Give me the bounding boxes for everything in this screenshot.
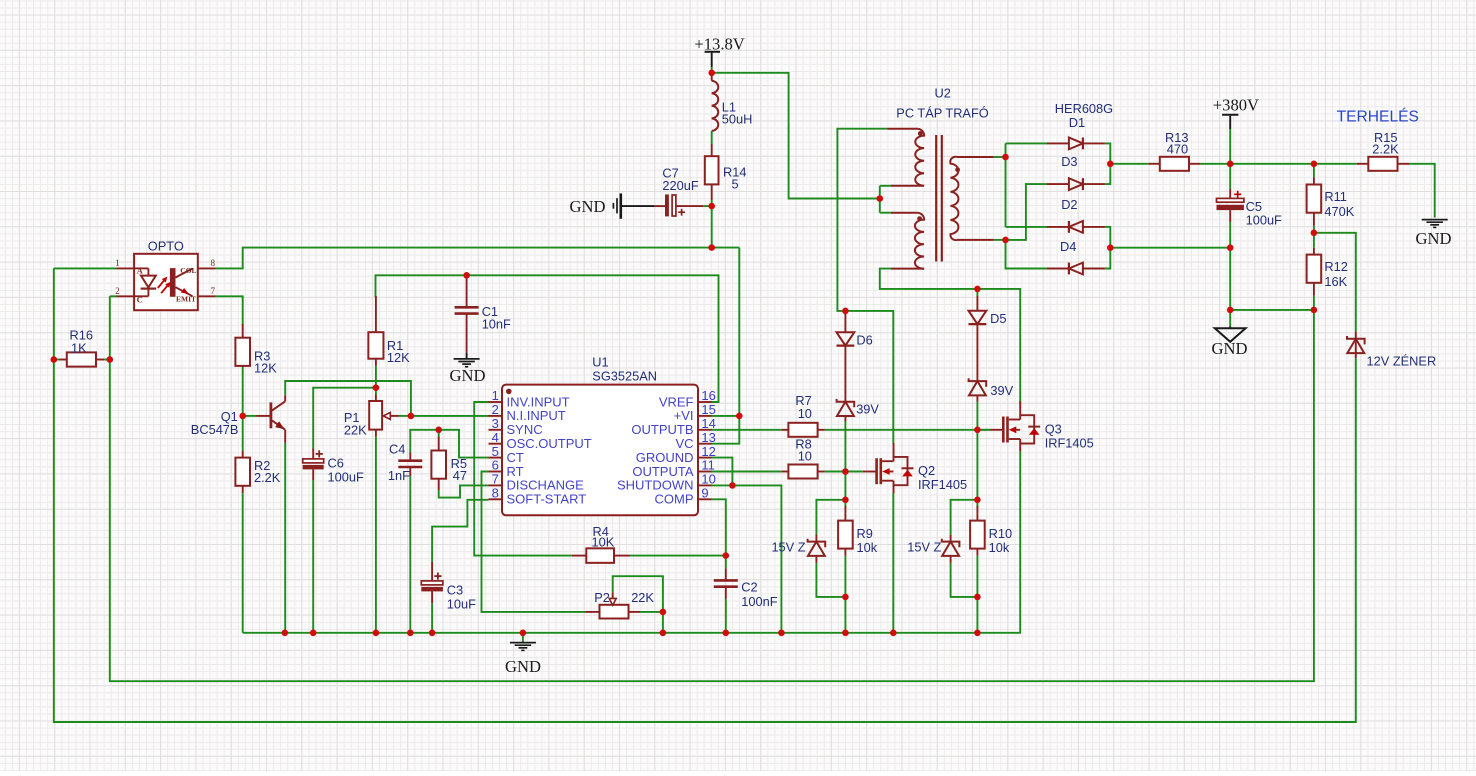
- wire OUTPUTB pin14 to R7: [712, 429, 782, 431]
- wire P1 top lead: [375, 388, 377, 395]
- svg-text:TERHELÉS: TERHELÉS: [1337, 106, 1419, 125]
- svg-text:+VI: +VI: [674, 408, 694, 423]
- svg-text:A: A: [137, 266, 144, 276]
- ground GND at bus: [510, 642, 536, 644]
- wire C2 bottom to bus: [725, 599, 727, 633]
- svg-text:10: 10: [798, 449, 812, 464]
- wire C5 node to GND arrow: [1229, 310, 1231, 327]
- svg-text:R11: R11: [1324, 189, 1347, 204]
- svg-text:15V Z: 15V Z: [907, 539, 941, 554]
- U1 pin 10 SHUTDOWN: [698, 484, 712, 486]
- svg-text:D5: D5: [990, 311, 1006, 326]
- resistor R9: [838, 521, 853, 549]
- wire +380V stem: [1229, 116, 1231, 129]
- svg-text:GND: GND: [1212, 339, 1248, 358]
- wire R2 bottom to bus corner: [242, 493, 244, 633]
- wire SOFT-START pin8 to C3: [432, 500, 488, 562]
- wire bus GND stub: [522, 633, 524, 642]
- wire Q2 drain feed: [845, 311, 893, 444]
- svg-text:16: 16: [701, 388, 715, 403]
- svg-text:IRF1405: IRF1405: [1045, 436, 1094, 451]
- U1 pin 2 N.I.INPUT: [489, 415, 503, 417]
- svg-text:OUTPUTA: OUTPUTA: [632, 464, 693, 479]
- svg-text:C3: C3: [447, 582, 463, 597]
- transistor Q2: [863, 471, 877, 473]
- wire R11 bottom node: [1313, 226, 1315, 233]
- svg-text:C4: C4: [389, 442, 405, 457]
- opto pin 1: [117, 267, 135, 269]
- wire SHUTDOWN pin10 stub link: [712, 484, 733, 486]
- resistor R13: [1160, 157, 1189, 171]
- wire 15V zener B loop: [951, 500, 978, 535]
- wire C5 top lead green: [1229, 164, 1231, 189]
- svg-text:D1: D1: [1069, 115, 1085, 130]
- U1 pin 14 OUTPUTB: [698, 429, 712, 431]
- wire OUTPUTA pin11 to R8: [712, 471, 782, 473]
- U1 pin 1 INV.INPUT: [489, 401, 503, 403]
- resistor R4: [586, 548, 614, 563]
- op-amp U1 SG3525AN body: [502, 385, 698, 516]
- svg-text:1: 1: [115, 258, 120, 268]
- transformer U2 secondary winding: [957, 156, 994, 158]
- capacitor C6: [312, 449, 314, 459]
- transformer polarity dot 2: [917, 216, 922, 221]
- transformer polarity dot 1: [918, 131, 923, 136]
- svg-text:10: 10: [701, 472, 715, 487]
- wire OPTO pin8 to +13.8 node and +VI corner: [216, 248, 740, 269]
- U1 pin 6 RT: [489, 471, 503, 473]
- svg-text:8: 8: [492, 486, 499, 501]
- wire R8 output to Q2 gate: [825, 471, 863, 473]
- wire R7 output to Q3 gate: [825, 429, 991, 431]
- opto light arrows: [158, 279, 165, 288]
- svg-text:D6: D6: [856, 332, 872, 347]
- svg-text:50uH: 50uH: [722, 112, 753, 127]
- wire Q3 gate node to R10: [976, 500, 978, 507]
- svg-text:5: 5: [492, 444, 499, 459]
- svg-text:SHUTDOWN: SHUTDOWN: [617, 478, 694, 493]
- svg-text:INV.INPUT: INV.INPUT: [507, 394, 570, 409]
- wire feedback loop inner (R12 node to R16 right): [110, 296, 1314, 681]
- zener diode 12V: [1355, 332, 1357, 339]
- svg-text:GND: GND: [570, 197, 606, 216]
- svg-text:9: 9: [701, 486, 708, 501]
- svg-text:7: 7: [492, 472, 499, 487]
- svg-text:SYNC: SYNC: [507, 422, 543, 437]
- svg-text:12V ZÉNER: 12V ZÉNER: [1367, 353, 1437, 368]
- inductor L1: [711, 73, 713, 81]
- svg-text:10nF: 10nF: [482, 316, 511, 331]
- wire SHUTDOWN node to ground bus: [732, 485, 781, 632]
- svg-text:COMP: COMP: [655, 492, 694, 507]
- wire Q2 gate node to R9: [844, 500, 846, 507]
- svg-text:11: 11: [701, 458, 715, 473]
- wire OPTO pin2 link: [110, 295, 117, 297]
- zener diode 39V A: [844, 346, 846, 402]
- opto phototransistor: [170, 268, 176, 297]
- U1 pin 15 +VI: [698, 415, 712, 417]
- wire R15 right to GND: [1409, 164, 1435, 218]
- svg-text:5: 5: [732, 177, 739, 192]
- svg-text:10: 10: [798, 406, 812, 421]
- svg-text:N.I.INPUT: N.I.INPUT: [507, 408, 566, 423]
- svg-text:GND: GND: [450, 366, 486, 385]
- wire RT pin6 to P2 left: [482, 472, 586, 612]
- svg-text:+380V: +380V: [1213, 95, 1259, 114]
- svg-text:39V: 39V: [990, 383, 1013, 398]
- U1 pin 12 GROUND: [698, 457, 712, 459]
- wire C7 node down: [711, 206, 713, 248]
- optocoupler OPTO box: [134, 254, 198, 310]
- capacitor C4: [409, 453, 411, 461]
- svg-text:COL: COL: [180, 266, 196, 275]
- wire P2 wiper loop: [613, 576, 663, 612]
- svg-text:C2: C2: [741, 579, 757, 594]
- svg-text:100uF: 100uF: [1246, 213, 1282, 228]
- svg-text:D4: D4: [1060, 239, 1076, 254]
- svg-text:470: 470: [1167, 142, 1188, 157]
- svg-text:13: 13: [701, 430, 715, 445]
- wire feedback loop outer (12V zener to R16 left): [54, 268, 1356, 722]
- wire Q3 gate link: [977, 429, 990, 431]
- U1 pin 13 VC: [698, 443, 712, 445]
- svg-text:CT: CT: [507, 450, 524, 465]
- wire 15V zener A loop: [816, 500, 845, 535]
- zener diode 39V B: [976, 324, 978, 381]
- resistor R8: [788, 465, 817, 479]
- svg-text:10uF: 10uF: [447, 596, 476, 611]
- wire D2/D4 join: [1105, 227, 1110, 269]
- wire D5 branch to Q3 gate node: [976, 289, 978, 296]
- wire Q1 base lead link: [243, 415, 257, 417]
- wire R1 bottom node to C6: [375, 366, 377, 388]
- svg-text:Q2: Q2: [918, 463, 935, 478]
- U1 pin 8 SOFT-START: [489, 498, 503, 500]
- svg-text:47: 47: [453, 468, 467, 483]
- svg-text:C: C: [137, 295, 143, 305]
- wire CT pin5 to C4/R5 top: [410, 430, 488, 458]
- svg-text:GROUND: GROUND: [636, 450, 694, 465]
- wire R11 top: [1313, 164, 1315, 178]
- svg-text:BC547B: BC547B: [191, 422, 239, 437]
- svg-text:100uF: 100uF: [328, 470, 364, 485]
- svg-text:C6: C6: [328, 456, 344, 471]
- svg-text:PC TÁP TRAFÓ: PC TÁP TRAFÓ: [896, 106, 988, 121]
- ground GND at C1: [466, 353, 468, 359]
- svg-text:SOFT-START: SOFT-START: [507, 492, 587, 507]
- svg-text:+13.8V: +13.8V: [694, 34, 744, 53]
- svg-text:D3: D3: [1061, 154, 1077, 169]
- wire N.I.INPUT pin2: [411, 415, 489, 417]
- U1 pin 7 DISCHANGE: [489, 484, 503, 486]
- wire R4 right to COMP node: [630, 555, 726, 557]
- wire COMP pin9 to R4/C2 node: [712, 499, 726, 568]
- wire P2 right to bus: [640, 611, 663, 613]
- resistor R5: [431, 451, 446, 479]
- svg-text:100nF: 100nF: [741, 594, 777, 609]
- svg-text:15: 15: [701, 402, 715, 417]
- svg-text:U2: U2: [935, 85, 951, 100]
- transistor Q3: [990, 429, 1003, 431]
- wire C5 bottom node: [1229, 222, 1231, 310]
- svg-text:P2: P2: [594, 590, 610, 605]
- svg-text:12: 12: [701, 444, 715, 459]
- svg-text:22K: 22K: [344, 423, 367, 438]
- wire D2 cathode link: [1006, 226, 1048, 228]
- resistor R11: [1307, 185, 1322, 213]
- wire Q1 emitter to bus: [284, 443, 286, 633]
- resistor R12: [1307, 255, 1322, 283]
- wire base node to R2: [242, 416, 244, 451]
- wire R12 top: [1313, 233, 1315, 248]
- opto LED: [134, 267, 148, 269]
- svg-text:D2: D2: [1061, 197, 1077, 212]
- wire GROUND pin12 to SHUTDOWN pin10: [712, 458, 733, 486]
- resistor R3: [235, 338, 250, 366]
- resistor R2: [235, 458, 250, 486]
- svg-text:1K: 1K: [71, 341, 87, 356]
- svg-text:470K: 470K: [1324, 204, 1354, 219]
- svg-text:6: 6: [492, 458, 499, 473]
- resistor R14: [705, 156, 719, 184]
- opto pin 8: [198, 267, 216, 269]
- svg-text:C5: C5: [1246, 199, 1262, 214]
- opto pin 7: [198, 295, 216, 297]
- svg-text:OPTO: OPTO: [148, 238, 184, 253]
- svg-text:HER608G: HER608G: [1055, 101, 1113, 116]
- resistor R7: [788, 423, 817, 437]
- svg-text:15V Z: 15V Z: [771, 539, 805, 554]
- diode D5: [976, 296, 978, 311]
- wire D1 anode link: [1006, 142, 1048, 144]
- diode D6: [844, 311, 846, 332]
- svg-text:GND: GND: [1416, 229, 1452, 248]
- svg-text:10k: 10k: [989, 540, 1010, 555]
- wire ground bus: [243, 451, 1021, 633]
- potentiometer P1: [369, 401, 382, 430]
- capacitor C7: [654, 205, 665, 207]
- wire D6 branch to Q2 gate node: [844, 422, 846, 500]
- zener diode 15V B: [950, 535, 952, 542]
- svg-text:SG3525AN: SG3525AN: [592, 369, 657, 384]
- wire R13 to +380 node to R11 and R15: [1200, 163, 1356, 165]
- wire Q1 collector to P1 wiper node: [285, 381, 411, 416]
- wire P1 bottom to bus: [375, 437, 377, 633]
- svg-text:2.2K: 2.2K: [1372, 142, 1399, 157]
- svg-text:EMIT: EMIT: [176, 295, 196, 304]
- wire R16 right link: [104, 359, 110, 361]
- potentiometer P2: [600, 605, 629, 619]
- svg-text:OSC.OUTPUT: OSC.OUTPUT: [507, 436, 592, 451]
- wire node B to D3: [1006, 184, 1048, 240]
- svg-text:10K: 10K: [592, 535, 615, 550]
- wire P1 wiper lead: [399, 415, 411, 417]
- resistor R10: [970, 521, 985, 549]
- transistor Q1: [257, 415, 271, 417]
- zener diode 15V A: [815, 535, 817, 542]
- svg-text:14: 14: [701, 416, 715, 431]
- svg-text:R9: R9: [857, 526, 873, 541]
- wire C4 bottom to bus: [409, 476, 411, 633]
- wire R12 bottom: [1313, 296, 1315, 310]
- resistor R1: [368, 332, 383, 359]
- wire secondary top to rectifier: [994, 156, 1006, 158]
- svg-text:OUTPUTB: OUTPUTB: [631, 422, 693, 437]
- U1 pin 9 COMP: [698, 498, 712, 500]
- U1 pin 4 OSC.OUTPUT: [489, 443, 503, 445]
- wire R10 bottom to bus: [976, 556, 978, 633]
- wire C3 bottom to bus: [431, 603, 433, 633]
- capacitor C1: [466, 275, 468, 308]
- U1 pin 16 VREF: [698, 401, 712, 403]
- svg-text:DISCHANGE: DISCHANGE: [507, 478, 585, 493]
- ground GND at R15: [1422, 219, 1448, 221]
- svg-text:10k: 10k: [857, 540, 878, 555]
- transformer U2 primary winding 1: [888, 128, 918, 130]
- svg-text:RT: RT: [507, 464, 524, 479]
- wire C5 gnd to R12 bottom: [1230, 309, 1314, 311]
- svg-text:2: 2: [492, 402, 499, 417]
- svg-text:22K: 22K: [631, 590, 654, 605]
- svg-text:1: 1: [492, 388, 499, 403]
- wire +13.8V rail to transformer center tap: [712, 73, 880, 199]
- svg-text:8: 8: [211, 258, 216, 268]
- wire transformer primary top to Q2 drain node: [837, 129, 887, 311]
- svg-text:R10: R10: [989, 526, 1012, 541]
- svg-text:2: 2: [115, 286, 120, 296]
- wire center tap verticals: [879, 186, 881, 213]
- opto pin 2: [117, 295, 135, 297]
- U1 pin 5 CT: [489, 457, 503, 459]
- svg-text:2.2K: 2.2K: [254, 470, 281, 485]
- transformer polarity dot 3: [955, 167, 960, 172]
- wire OPTO pin7 to R3: [216, 296, 243, 325]
- svg-text:16K: 16K: [1324, 274, 1347, 289]
- svg-text:U1: U1: [592, 355, 608, 370]
- wire Q2 source to bus: [892, 493, 894, 633]
- svg-text:7: 7: [211, 286, 216, 296]
- svg-text:220uF: 220uF: [662, 178, 698, 193]
- wire node B to D4: [1006, 240, 1048, 269]
- svg-text:GND: GND: [505, 657, 541, 676]
- wire +VI / VC vertical: [712, 248, 740, 444]
- wire D1/D3 cathodes join: [1105, 143, 1110, 184]
- svg-text:39V: 39V: [856, 402, 879, 417]
- resistor R16: [67, 352, 96, 366]
- svg-text:1nF: 1nF: [388, 468, 410, 483]
- capacitor C5: [1229, 189, 1231, 198]
- wire rectifier node A vertical: [1005, 143, 1007, 227]
- svg-text:VC: VC: [675, 436, 693, 451]
- wire R9 bottom to bus: [844, 556, 846, 633]
- transformer U2 primary winding 2: [891, 212, 917, 214]
- junction dots: [708, 70, 715, 77]
- wire DISCHANGE pin7 to R5 bottom: [439, 485, 489, 497]
- ground GND arrow at C5: [1229, 327, 1231, 329]
- svg-text:IRF1405: IRF1405: [918, 477, 967, 492]
- svg-text:12K: 12K: [387, 350, 410, 365]
- U1 pin 11 OUTPUTA: [698, 471, 712, 473]
- wire C6 bottom to bus: [312, 480, 314, 633]
- wire primary bottom to Q3 drain: [880, 269, 1020, 405]
- wire rectifier + output to R13: [1110, 163, 1148, 165]
- U1 pin 3 SYNC: [489, 429, 503, 431]
- svg-text:VREF: VREF: [659, 394, 694, 409]
- wire VREF pin16 to rail: [376, 275, 719, 402]
- wire R3 bottom to Q1 base node: [242, 366, 244, 416]
- wire R11/R12 node to 12V zener: [1314, 233, 1356, 332]
- wire pin15 +VI stub link: [712, 415, 740, 417]
- capacitor C2: [725, 568, 727, 580]
- wire R16 left link: [54, 359, 60, 361]
- transformer U2 core: [935, 135, 937, 262]
- svg-text:R12: R12: [1324, 259, 1347, 274]
- resistor R15: [1368, 157, 1397, 171]
- svg-text:4: 4: [492, 430, 499, 445]
- wire R14 bottom to C7 node: [711, 200, 713, 206]
- wire secondary bottom to rectifier: [994, 239, 1006, 241]
- capacitor C3: [431, 562, 433, 581]
- wire INV.INPUT pin1 to R4 left: [474, 402, 572, 556]
- wire rectifier - output to C5 bottom: [1110, 247, 1230, 249]
- wire R5 top lead: [438, 430, 440, 437]
- svg-text:3: 3: [492, 416, 499, 431]
- wire OPTO pin1 link: [54, 267, 117, 269]
- svg-text:Q3: Q3: [1045, 421, 1062, 436]
- svg-text:12K: 12K: [254, 361, 277, 376]
